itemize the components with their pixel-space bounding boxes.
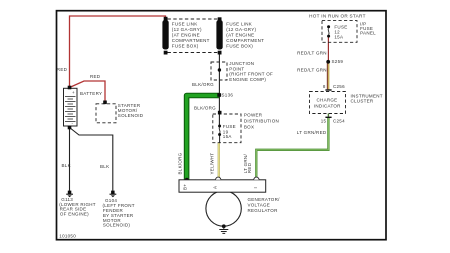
svg-text:(RIGHT FRONT OF: (RIGHT FRONT OF: [229, 72, 273, 77]
svg-text:FUSE BOX): FUSE BOX): [226, 43, 253, 48]
svg-text:ENGINE COMP): ENGINE COMP): [229, 77, 266, 82]
svg-text:CLUSTER: CLUSTER: [351, 99, 374, 104]
svg-text:INSTRUMENT: INSTRUMENT: [351, 93, 383, 98]
svg-text:(AT ENGINE: (AT ENGINE: [172, 32, 200, 37]
svg-text:C256: C256: [333, 84, 345, 89]
svg-text:YEL/WHT: YEL/WHT: [210, 153, 215, 175]
svg-text:DISTRIBUTION: DISTRIBUTION: [244, 119, 279, 124]
svg-text:-: -: [72, 121, 74, 126]
svg-text:BLK/ORG: BLK/ORG: [194, 105, 216, 110]
svg-text:RED: RED: [90, 74, 101, 79]
svg-text:HOT IN RUN OR START: HOT IN RUN OR START: [309, 14, 366, 19]
svg-text:BLK: BLK: [100, 164, 109, 169]
svg-text:PANEL: PANEL: [360, 31, 376, 36]
svg-text:BLK/ORG: BLK/ORG: [178, 152, 183, 174]
svg-text:15A: 15A: [223, 134, 232, 139]
svg-text:POWER: POWER: [244, 113, 263, 118]
svg-text:+: +: [72, 90, 75, 95]
svg-text:S136: S136: [222, 93, 234, 98]
svg-text:JUNCTION: JUNCTION: [229, 61, 254, 66]
svg-text:BOX: BOX: [244, 125, 254, 130]
svg-text:A: A: [213, 186, 218, 189]
svg-text:REGULATOR: REGULATOR: [248, 208, 279, 213]
svg-text:FUSE BOX): FUSE BOX): [172, 43, 199, 48]
svg-text:FUSE LINK: FUSE LINK: [226, 21, 252, 26]
svg-text:101050: 101050: [59, 233, 76, 238]
svg-text:BLK/ORG: BLK/ORG: [192, 82, 214, 87]
svg-text:(AT ENGINE: (AT ENGINE: [226, 32, 254, 37]
svg-text:RED/LT GRN: RED/LT GRN: [297, 50, 327, 55]
svg-text:GENERATOR/: GENERATOR/: [248, 197, 281, 202]
svg-text:C254: C254: [333, 119, 345, 124]
svg-text:COMPARTMENT: COMPARTMENT: [226, 38, 264, 43]
svg-text:INDICATOR: INDICATOR: [314, 104, 341, 109]
svg-text:B+: B+: [183, 184, 188, 190]
svg-text:RED: RED: [57, 67, 68, 72]
svg-text:FUSE LINK: FUSE LINK: [172, 21, 198, 26]
svg-text:FUSE: FUSE: [223, 124, 236, 129]
svg-text:VOLTAGE: VOLTAGE: [248, 203, 271, 208]
svg-text:OF ENGINE): OF ENGINE): [60, 212, 89, 217]
svg-text:POINT: POINT: [229, 66, 244, 71]
svg-text:(12 GA-GRY): (12 GA-GRY): [172, 27, 202, 32]
svg-text:15A: 15A: [334, 34, 343, 39]
svg-text:S259: S259: [332, 59, 344, 64]
svg-text:SOLENOID): SOLENOID): [103, 223, 130, 228]
svg-text:BATTERY: BATTERY: [80, 91, 102, 96]
svg-text:(12 GA-GRY): (12 GA-GRY): [226, 27, 256, 32]
svg-text:BLK: BLK: [62, 163, 71, 168]
svg-text:SOLENOID: SOLENOID: [118, 113, 144, 118]
svg-text:I: I: [253, 187, 258, 189]
svg-text:8: 8: [323, 84, 326, 89]
svg-text:LT GRN/RED: LT GRN/RED: [297, 130, 327, 135]
svg-text:RED/LT GRN: RED/LT GRN: [297, 68, 327, 73]
svg-text:CHARGE: CHARGE: [317, 98, 338, 103]
svg-text:COMPARTMENT: COMPARTMENT: [172, 38, 210, 43]
svg-text:RED: RED: [247, 162, 252, 173]
svg-text:15: 15: [321, 118, 327, 123]
